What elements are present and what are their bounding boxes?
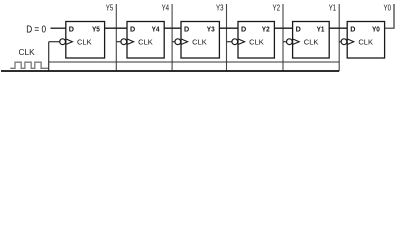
svg-text:D: D (184, 25, 190, 34)
svg-text:D = 0: D = 0 (26, 25, 46, 36)
svg-text:Y4: Y4 (152, 25, 161, 34)
svg-text:D: D (350, 25, 356, 34)
svg-text:CLK: CLK (358, 40, 373, 47)
svg-text:Y1: Y1 (329, 4, 337, 13)
wire clock feed to U6 (339, 41, 341, 43)
CLK edge-trigger chevron of U5 (293, 39, 300, 45)
flip-flop U3 (D flip-flop, output Y3) (175, 22, 219, 59)
svg-text:D: D (296, 25, 302, 34)
svg-text:CLK: CLK (249, 40, 264, 47)
node Y1 vertical line (329, 4, 340, 72)
svg-text:CLK: CLK (192, 40, 207, 47)
wire clock feed to U2 (116, 41, 121, 43)
CLK inversion bubble of U2 (121, 39, 127, 45)
svg-text:Y4: Y4 (162, 4, 170, 13)
svg-text:CLK: CLK (77, 40, 92, 47)
CLK inversion bubble of U5 (287, 39, 293, 45)
svg-text:CLK: CLK (304, 40, 319, 47)
node Y4 vertical line (162, 4, 173, 72)
clock waveform symbol (10, 62, 49, 68)
wire Q3 to D4 (219, 27, 238, 29)
svg-text:Y1: Y1 (317, 25, 325, 34)
svg-text:CLK: CLK (138, 40, 153, 47)
node Y3 vertical line (216, 4, 227, 72)
wire Q4 to D5 (274, 27, 292, 29)
flip-flop U5 (D flip-flop, output Y1) (287, 22, 330, 59)
svg-text:Y5: Y5 (106, 4, 114, 13)
CLK inversion bubble of U6 (341, 39, 347, 45)
svg-text:Y5: Y5 (92, 25, 100, 34)
flip-flop U1 (D flip-flop, output Y5) (60, 22, 105, 59)
svg-text:D: D (130, 25, 136, 34)
wire clock feed to U4 (227, 41, 232, 43)
svg-text:Y3: Y3 (207, 25, 215, 34)
svg-text:Y0: Y0 (372, 25, 380, 34)
svg-text:Y2: Y2 (273, 4, 281, 13)
svg-text:D: D (241, 25, 247, 34)
node Y0 output wire and vertical (384, 4, 395, 29)
svg-text:Y2: Y2 (262, 25, 270, 34)
wire clock feed to U5 (283, 41, 287, 43)
wire clock feed to U1 (49, 41, 60, 43)
CLK edge-trigger chevron of U6 (347, 39, 354, 45)
wire Q5 to D6 (329, 27, 347, 29)
wire Q2 to D3 (164, 27, 181, 29)
flip-flop U6 (D flip-flop, output Y0) (341, 22, 385, 59)
svg-text:D: D (69, 25, 75, 34)
flip-flop U4 (D flip-flop, output Y2) (232, 22, 274, 59)
CLK edge-trigger chevron of U1 (66, 39, 73, 45)
CLK edge-trigger chevron of U3 (181, 39, 188, 45)
CLK inversion bubble of U1 (60, 39, 66, 45)
node Y5 vertical line (106, 4, 117, 72)
wire Q1 to D2 (105, 27, 127, 29)
svg-text:CLK: CLK (19, 48, 36, 57)
CLK edge-trigger chevron of U4 (238, 39, 245, 45)
wire D input to U1 (51, 27, 66, 29)
CLK inversion bubble of U3 (175, 39, 181, 45)
clock distribution line (49, 61, 340, 63)
wire clock feed to U3 (172, 41, 175, 43)
clock rail (bottom) (1, 70, 339, 72)
svg-text:Y3: Y3 (216, 4, 224, 13)
node Y2 vertical line (273, 4, 284, 72)
wire CLK input drop (48, 42, 50, 71)
svg-text:Y0: Y0 (384, 4, 392, 13)
CLK inversion bubble of U4 (232, 39, 238, 45)
CLK edge-trigger chevron of U2 (127, 39, 134, 45)
flip-flop U2 (D flip-flop, output Y4) (121, 22, 164, 59)
